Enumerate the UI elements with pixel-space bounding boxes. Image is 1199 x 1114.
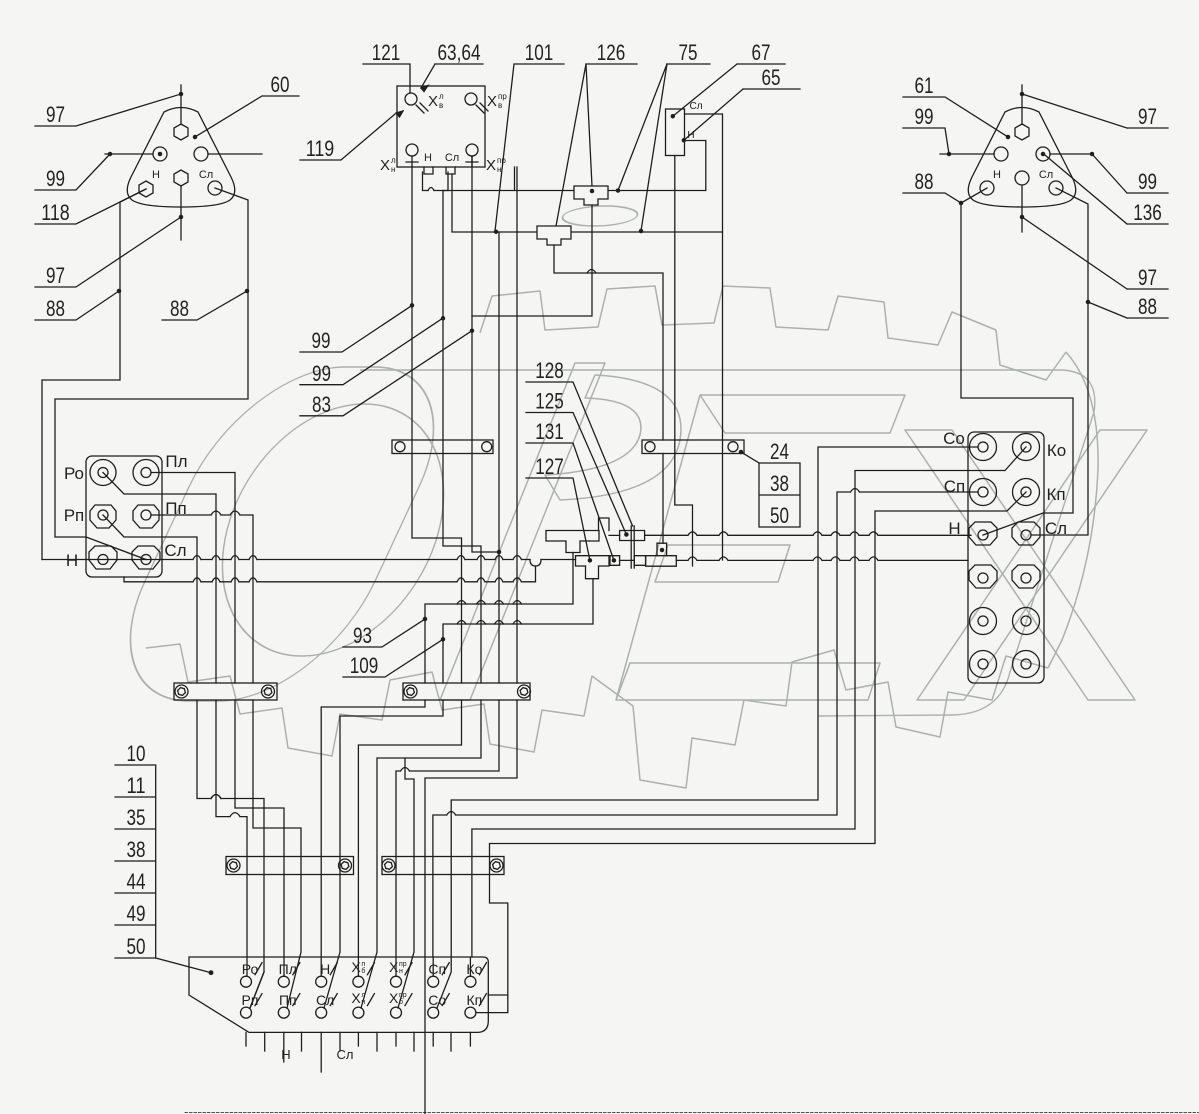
- svg-text:83: 83: [312, 392, 331, 417]
- wire Xnpr column from B4: [396, 700, 499, 976]
- svg-text:Пл: Пл: [165, 452, 187, 471]
- stub right of connector 60: [208, 153, 262, 155]
- rail A (N bus): [42, 559, 576, 561]
- svg-text:Ро: Ро: [242, 961, 259, 977]
- svg-text:97: 97: [1138, 104, 1157, 129]
- svg-text:Сл: Сл: [689, 101, 702, 112]
- svg-text:Кп: Кп: [467, 992, 483, 1008]
- hump on T2 branch: [587, 270, 596, 274]
- svg-text:99: 99: [312, 328, 331, 353]
- clamp bar B6: [382, 857, 504, 875]
- right loop to Kp pin: [476, 995, 508, 1013]
- svg-text:125: 125: [535, 389, 564, 414]
- svg-text:Н: Н: [66, 551, 78, 570]
- hump on wire A at bracket: [428, 188, 434, 191]
- svg-text:109: 109: [350, 653, 379, 678]
- terminal Sl: [132, 546, 160, 569]
- wire A from N bracket to connector 67: [443, 141, 706, 191]
- wire into Sl terminal: [86, 537, 146, 560]
- svg-text:24: 24: [770, 439, 789, 464]
- wire Pl column down: [235, 700, 284, 976]
- wire Pp to the right with humps: [151, 511, 253, 683]
- terminal r4r: [1012, 565, 1040, 588]
- wire Ko diag left down: [472, 447, 1026, 957]
- svg-text:Х: Х: [487, 93, 497, 110]
- leader 99 left: [35, 154, 153, 190]
- row1 wire right with humps: [645, 532, 971, 536]
- svg-text:Сл: Сл: [164, 541, 186, 560]
- svg-text:Х: Х: [351, 990, 361, 1006]
- svg-text:в: в: [439, 101, 443, 110]
- svg-text:88: 88: [1138, 294, 1157, 319]
- centre assembly row2 left T: [576, 556, 610, 579]
- svg-text:50: 50: [127, 934, 146, 959]
- pin Xv-pr: [391, 1007, 402, 1018]
- wire axis through connector 61: [1021, 85, 1023, 232]
- leader 97 lower: [35, 217, 181, 287]
- svg-text:67: 67: [752, 40, 771, 65]
- terminal Rp: [90, 505, 116, 528]
- wire 67 stem down: [675, 156, 693, 567]
- leader 97 right lower: [1022, 217, 1168, 289]
- T2 stem wire down right to centre: [554, 245, 663, 543]
- connector block K (right middle) body: [968, 432, 1044, 683]
- clamp bar B4: [403, 683, 530, 700]
- T fitting T1 on wire A: [574, 186, 608, 205]
- diagonal feeds inside connector: [250, 957, 470, 1008]
- svg-text:93: 93: [353, 623, 372, 648]
- leader 99 left of 61: [903, 128, 994, 154]
- terminal So: [970, 434, 997, 461]
- svg-text:Х: Х: [351, 959, 361, 975]
- leader 50 arrow: [156, 958, 211, 973]
- svg-text:л: л: [361, 992, 365, 999]
- T1 stem wire down then left: [472, 205, 592, 316]
- wire Kp diag left down: [490, 492, 1027, 995]
- connector 119 tab Sl: [446, 167, 455, 174]
- row2 fitting rect2: [634, 556, 645, 566]
- wire Sp left down: [433, 489, 978, 958]
- svg-text:п: п: [361, 961, 365, 968]
- clamp bar B3: [174, 683, 277, 700]
- connector 67 box: [666, 109, 685, 156]
- wire from 61 Sl pin down: [1032, 188, 1088, 535]
- connector 119 pin Xn-l: [406, 144, 418, 156]
- wire from box 119 bottom right: [515, 167, 518, 683]
- svg-text:Со: Со: [943, 429, 965, 448]
- svg-text:б: б: [361, 967, 365, 975]
- pin Ro: [241, 976, 252, 987]
- svg-text:88: 88: [170, 296, 189, 321]
- svg-text:л: л: [439, 92, 444, 101]
- svg-text:Х: Х: [389, 959, 399, 975]
- leaders 128 125 131 127: [526, 382, 633, 560]
- clamp bar B5: [226, 857, 354, 875]
- wire from 60 H pin down left side: [42, 189, 146, 560]
- wire Ro diagonal and right: [103, 473, 216, 684]
- row2 wire right with humps: [676, 557, 968, 561]
- svg-text:Сл: Сл: [1045, 519, 1067, 538]
- humps on stem wires: [457, 601, 522, 625]
- leader 99b: [300, 318, 443, 384]
- wire B right branch down: [722, 232, 724, 560]
- connector 60 holes: [174, 124, 188, 140]
- leader 118: [35, 189, 146, 224]
- svg-text:Сп: Сп: [944, 477, 965, 496]
- svg-text:99: 99: [1138, 169, 1157, 194]
- terminal r5r: [1013, 608, 1040, 635]
- pin Xv-p: [353, 976, 364, 987]
- svg-text:136: 136: [1133, 200, 1162, 225]
- wire axis through connector 60: [180, 85, 182, 240]
- wire B from box 119 Sl tab to connector 67: [452, 114, 723, 232]
- svg-text:60: 60: [271, 72, 290, 97]
- svg-text:Пп: Пп: [279, 992, 297, 1008]
- pin So: [428, 1007, 439, 1018]
- watermark letter O inner: [196, 404, 471, 656]
- connector X1 body (bottom): [189, 957, 488, 1032]
- wire So left and down: [451, 447, 978, 957]
- watermark hub ellipse: [557, 206, 643, 226]
- leader 136: [1045, 155, 1168, 224]
- wire from 60 Sl pin down: [55, 188, 248, 537]
- wire stubs below connector X1: [246, 1032, 470, 1072]
- svg-text:65: 65: [762, 65, 781, 90]
- wire Sl column from B4: [324, 700, 443, 1008]
- pin Sp: [428, 976, 439, 987]
- svg-text:Пл: Пл: [279, 961, 297, 977]
- svg-text:38: 38: [770, 471, 789, 496]
- bracket under connector 119: [423, 172, 449, 191]
- svg-text:126: 126: [597, 40, 626, 65]
- svg-text:Ко: Ко: [466, 961, 482, 977]
- pin Rp: [241, 1007, 252, 1018]
- svg-text:Н: Н: [152, 169, 160, 181]
- svg-text:61: 61: [915, 73, 934, 98]
- watermark letter X: [905, 430, 1135, 700]
- watermark gear and OREX letters: [89, 206, 1147, 788]
- svg-text:пр: пр: [399, 992, 407, 999]
- svg-text:49: 49: [127, 901, 146, 926]
- connector 61 holes: [1015, 124, 1029, 140]
- leader 99 right: [1050, 154, 1168, 193]
- connector 119 pin Xn-pr: [466, 144, 478, 156]
- rail B humps: [193, 578, 522, 582]
- svg-text:Н: Н: [687, 130, 694, 141]
- leader 24 to clamp B2: [741, 452, 759, 463]
- svg-text:Сл: Сл: [445, 152, 459, 164]
- svg-text:131: 131: [535, 419, 564, 444]
- gray wire from top center to lower right: [360, 370, 1095, 716]
- pin Pl: [278, 976, 289, 987]
- svg-text:Н: Н: [281, 1047, 290, 1062]
- pin Sl: [316, 1007, 327, 1018]
- svg-text:Рп: Рп: [64, 506, 85, 525]
- leader 126 to T2: [556, 64, 586, 226]
- centre assembly row1 left T: [546, 531, 599, 553]
- svg-text:Сп: Сп: [428, 961, 446, 977]
- wire Pp column down: [253, 700, 301, 1008]
- leader 97 right top: [1022, 94, 1168, 128]
- svg-text:44: 44: [127, 869, 146, 894]
- svg-text:Сл: Сл: [316, 992, 334, 1008]
- leader 93: [343, 619, 425, 647]
- leader 88 left: [35, 291, 119, 320]
- svg-text:б: б: [399, 998, 403, 1006]
- wire Xn-pr vertical: [472, 156, 499, 552]
- wire Xnl column from B4: [361, 700, 481, 1008]
- svg-text:10: 10: [127, 741, 146, 766]
- rail A dip: [530, 560, 541, 567]
- row2 wide bar: [646, 556, 677, 567]
- leader 60: [195, 96, 299, 137]
- leader 67: [673, 64, 785, 116]
- svg-text:101: 101: [525, 40, 554, 65]
- svg-text:л: л: [391, 156, 396, 165]
- leader 63,64 arrow: [421, 64, 483, 88]
- svg-text:38: 38: [127, 837, 146, 862]
- pin Xn-l: [353, 1007, 364, 1018]
- leader 88 left of 61: [903, 193, 961, 203]
- svg-text:пр: пр: [497, 156, 506, 165]
- svg-text:121: 121: [372, 40, 401, 65]
- wire N column from B4: [321, 700, 425, 976]
- wire Xvl column from B4: [358, 700, 461, 976]
- svg-text:Х: Х: [389, 990, 399, 1006]
- bottom edge dotted artifact: [185, 1112, 1199, 1114]
- terminal N: [89, 546, 117, 569]
- rail A humps: [193, 556, 522, 560]
- svg-text:Рп: Рп: [242, 992, 259, 1008]
- wire Xn-l vertical: [412, 167, 462, 683]
- leader 99a: [300, 305, 412, 352]
- svg-text:н: н: [399, 968, 403, 975]
- connector 60 body (left triangle): [127, 108, 235, 208]
- row1 stem wire down left: [425, 553, 573, 684]
- svg-text:Н: Н: [993, 169, 1001, 181]
- row2 fitting rect: [610, 556, 620, 566]
- number table 10-50: [115, 765, 156, 958]
- connector 119 tab N: [424, 167, 433, 174]
- svg-text:н: н: [361, 999, 365, 1006]
- terminal Ro: [90, 460, 116, 486]
- leader 88 right: [162, 291, 247, 320]
- svg-text:Х: Х: [428, 93, 438, 110]
- pin Pp: [278, 1007, 289, 1018]
- wire Rp column to connector: [197, 700, 264, 1008]
- connector 119 lamp Xv-l: [405, 93, 417, 105]
- svg-text:99: 99: [46, 166, 65, 191]
- connector 119 box (top centre): [397, 86, 485, 167]
- row2 up tab: [657, 543, 667, 556]
- svg-text:н: н: [497, 165, 501, 174]
- svg-text:99: 99: [915, 104, 934, 129]
- leader 61: [903, 97, 1008, 137]
- wire from 61 H pin down: [961, 188, 1073, 535]
- svg-text:Н: Н: [948, 519, 960, 538]
- svg-text:Пп: Пп: [165, 499, 186, 518]
- svg-text:50: 50: [770, 503, 789, 528]
- row2 stem wire down left: [443, 579, 593, 683]
- terminal N right: [969, 522, 997, 545]
- terminal r4l: [969, 565, 997, 588]
- leader 109: [343, 639, 443, 677]
- pin Kp: [465, 1007, 476, 1018]
- pin Ko: [465, 976, 476, 987]
- wire 101 vertical: [498, 232, 500, 683]
- terminal r6l: [970, 651, 997, 678]
- connector block PL (left middle) body: [86, 456, 162, 577]
- svg-text:118: 118: [41, 200, 70, 225]
- svg-text:Сл: Сл: [337, 1047, 354, 1062]
- watermark letter P: [440, 363, 605, 700]
- svg-text:пр: пр: [399, 961, 407, 968]
- leader 65: [684, 89, 800, 140]
- clamp bar B1: [392, 440, 493, 454]
- svg-text:Кп: Кп: [1046, 485, 1065, 504]
- rail B lower: [124, 566, 536, 582]
- svg-text:Х: Х: [486, 157, 496, 174]
- pin N: [316, 976, 327, 987]
- leader 88 right lower: [1088, 302, 1168, 318]
- svg-text:Н: Н: [320, 961, 330, 977]
- centre clamp bar vertical: [631, 526, 634, 568]
- watermark letter E: [700, 395, 905, 433]
- svg-text:99: 99: [312, 361, 331, 386]
- svg-text:н: н: [391, 165, 395, 174]
- svg-text:75: 75: [679, 40, 698, 65]
- leader 101: [495, 64, 564, 231]
- terminal Pl: [133, 460, 159, 486]
- terminal Ko: [1013, 434, 1040, 461]
- svg-text:127: 127: [535, 454, 564, 479]
- wire Ro column to connector: [216, 700, 247, 976]
- connector 61 body (right triangle): [968, 108, 1076, 208]
- svg-text:Н: Н: [424, 152, 432, 164]
- T fitting T2 on wire B: [537, 226, 571, 245]
- svg-text:88: 88: [915, 169, 934, 194]
- svg-text:35: 35: [127, 805, 146, 830]
- svg-text:Ко: Ко: [1047, 441, 1066, 460]
- leader 75 to wire B: [641, 64, 667, 231]
- leader 126 to T1: [586, 64, 637, 186]
- pin Xn-pr: [391, 976, 402, 987]
- watermark gear outline: [480, 286, 1066, 380]
- terminal r6r: [1013, 651, 1040, 678]
- terminal Sp: [970, 479, 997, 506]
- leader 121: [363, 64, 410, 93]
- svg-text:63,64: 63,64: [438, 40, 481, 65]
- svg-text:Ро: Ро: [64, 464, 84, 483]
- wire Pl to the right: [151, 473, 235, 684]
- svg-text:пр: пр: [498, 92, 507, 101]
- svg-text:11: 11: [127, 773, 146, 798]
- leader 97 top-left: [35, 94, 181, 126]
- wire N vertical from bracket: [443, 191, 481, 684]
- terminal Sl right: [1012, 522, 1040, 545]
- wire Rp diagonal and right: [103, 515, 197, 683]
- row1 fitting rect: [620, 531, 645, 541]
- terminal r5l: [970, 608, 997, 635]
- clamp bar B2: [642, 440, 744, 454]
- svg-text:Сл: Сл: [1039, 169, 1053, 181]
- svg-text:Сл: Сл: [199, 169, 213, 181]
- svg-text:Со: Со: [428, 992, 446, 1008]
- svg-text:88: 88: [46, 296, 65, 321]
- watermark letter O outer: [89, 367, 475, 701]
- connector 119 lamp Xv-pr: [465, 93, 477, 105]
- svg-text:119: 119: [306, 136, 335, 161]
- terminal Kp: [1013, 479, 1040, 506]
- leader 75 to wire A: [618, 64, 710, 191]
- leader 83: [300, 331, 472, 416]
- svg-text:в: в: [498, 101, 502, 110]
- table 24 38 50: [759, 463, 800, 527]
- svg-text:97: 97: [46, 102, 65, 127]
- svg-text:97: 97: [1138, 265, 1157, 290]
- svg-text:97: 97: [46, 263, 65, 288]
- svg-text:128: 128: [535, 358, 564, 383]
- row1 up tab: [599, 518, 610, 531]
- wire Xvpr column: [425, 700, 517, 1114]
- leader 119 arrow: [300, 114, 395, 160]
- svg-text:Х: Х: [380, 157, 390, 174]
